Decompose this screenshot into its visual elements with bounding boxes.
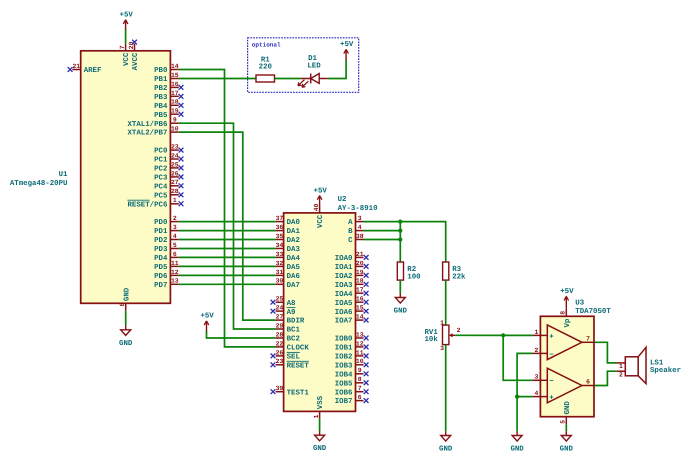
svg-text:BDIR: BDIR xyxy=(287,318,305,326)
svg-text:PC1: PC1 xyxy=(154,157,168,165)
svg-text:17: 17 xyxy=(356,287,364,294)
IC U1 ATmega48-20PU body xyxy=(81,51,171,303)
U2 pin 21 IOA0 xyxy=(335,251,369,263)
svg-text:31: 31 xyxy=(276,269,284,276)
svg-text:IOB7: IOB7 xyxy=(335,398,353,406)
wire U1 GND pin to ground xyxy=(125,311,127,326)
svg-text:14: 14 xyxy=(356,314,364,321)
svg-text:IOA4: IOA4 xyxy=(335,291,353,299)
svg-text:24: 24 xyxy=(276,305,284,312)
svg-text:PD2: PD2 xyxy=(154,237,167,245)
U3 pin 5 GND xyxy=(560,401,572,424)
svg-text:PD0: PD0 xyxy=(154,219,168,227)
U3 pin 1 xyxy=(532,329,547,336)
svg-text:−: − xyxy=(549,351,554,359)
svg-text:PB1: PB1 xyxy=(154,76,168,84)
U1 pin 14 PB0 xyxy=(154,63,179,75)
svg-text:36: 36 xyxy=(276,224,284,231)
svg-text:C: C xyxy=(348,237,353,245)
svg-text:CLOCK: CLOCK xyxy=(287,345,310,353)
svg-text:7: 7 xyxy=(119,45,126,49)
svg-text:VCC: VCC xyxy=(123,52,131,66)
power +5V above U3 xyxy=(560,288,574,308)
svg-text:2: 2 xyxy=(173,215,177,222)
svg-text:6: 6 xyxy=(586,379,590,386)
svg-text:DA2: DA2 xyxy=(287,237,300,245)
svg-text:29: 29 xyxy=(276,322,284,329)
wire pin4 net to ground xyxy=(516,397,518,432)
svg-text:26: 26 xyxy=(276,349,284,356)
U2 pin 33 DA4 xyxy=(276,251,301,263)
note box optional xyxy=(248,38,359,93)
svg-text:+5V: +5V xyxy=(340,41,354,49)
LED D1 xyxy=(298,55,328,87)
svg-text:PB2: PB2 xyxy=(154,85,167,93)
svg-text:GND: GND xyxy=(564,401,572,415)
U2 pin 10 IOB3 xyxy=(335,358,369,370)
svg-text:U3: U3 xyxy=(575,300,584,308)
svg-text:21: 21 xyxy=(72,63,80,70)
wire bus down to R2 xyxy=(399,222,401,262)
svg-text:IOA1: IOA1 xyxy=(335,264,353,272)
svg-text:15: 15 xyxy=(356,305,364,312)
U2 pin 18 IOA3 xyxy=(335,278,369,290)
U1 pin 27 PC4 xyxy=(154,179,183,191)
svg-text:DA0: DA0 xyxy=(287,219,301,227)
svg-text:IOB4: IOB4 xyxy=(335,371,353,379)
svg-text:B: B xyxy=(348,228,353,236)
power +5V above U2 xyxy=(314,187,328,204)
U2 pin 35 DA2 xyxy=(276,233,300,245)
U1 pin 11 PD5 xyxy=(154,260,179,272)
wire RV1 bottom to ground xyxy=(445,345,447,432)
svg-text:100: 100 xyxy=(407,273,421,281)
U2 pin 8 IOB5 xyxy=(335,376,369,388)
power +5V above U1 xyxy=(120,12,134,30)
svg-text:15: 15 xyxy=(171,72,179,79)
svg-text:22k: 22k xyxy=(452,272,466,281)
U1 pin 12 PD6 xyxy=(154,269,179,281)
U1 pin 13 PD7 xyxy=(154,278,179,290)
svg-text:5: 5 xyxy=(560,420,567,424)
ground symbol below U3 xyxy=(560,431,574,453)
U1 pin 25 PC2 xyxy=(154,161,183,173)
U2 pin 28 BC2 xyxy=(276,331,300,343)
svg-text:BC1: BC1 xyxy=(287,327,301,335)
svg-text:40: 40 xyxy=(313,203,320,211)
svg-text:AVCC: AVCC xyxy=(132,52,140,70)
svg-text:+5V: +5V xyxy=(200,313,214,321)
svg-text:19: 19 xyxy=(356,269,364,276)
U3 pin 4 xyxy=(532,390,547,397)
ground symbol below U1 xyxy=(119,326,133,348)
U2 pin 29 BC1 xyxy=(276,322,301,334)
svg-text:27: 27 xyxy=(171,179,179,186)
wire XTAL1/PB6 to BC1 xyxy=(179,123,276,329)
U2 pin 25 A8 xyxy=(271,296,296,308)
junction at pin4 net xyxy=(515,395,519,399)
svg-text:1: 1 xyxy=(619,363,623,370)
wire PD2 to DA2 xyxy=(179,239,276,241)
svg-text:30: 30 xyxy=(276,278,284,285)
power +5V in optional box xyxy=(340,41,354,60)
U2 pin 24 A9 xyxy=(271,305,296,317)
svg-text:2: 2 xyxy=(619,371,623,378)
U2 pin 17 IOA4 xyxy=(335,287,369,299)
svg-text:19: 19 xyxy=(171,108,179,115)
svg-text:RESET/PC6: RESET/PC6 xyxy=(127,200,167,209)
wire wiper net to U3 pin3 xyxy=(503,335,532,380)
svg-text:28: 28 xyxy=(171,188,179,195)
U2 pin 4 B xyxy=(348,224,363,236)
U2 pin 31 DA6 xyxy=(276,269,301,281)
svg-text:PD7: PD7 xyxy=(154,282,167,290)
svg-text:1: 1 xyxy=(534,329,538,336)
svg-text:IOB1: IOB1 xyxy=(335,345,353,353)
U2 pin 15 IOA6 xyxy=(335,305,369,317)
svg-text:7: 7 xyxy=(586,335,590,342)
svg-text:IOA7: IOA7 xyxy=(335,318,353,326)
U2 pin 39 TEST1 xyxy=(271,385,310,397)
svg-text:TDA7050T: TDA7050T xyxy=(575,308,611,316)
U3 pin 3 xyxy=(532,374,547,381)
svg-text:23: 23 xyxy=(276,358,284,365)
svg-text:Vp: Vp xyxy=(564,318,572,327)
svg-text:16: 16 xyxy=(356,296,364,303)
note text optional xyxy=(252,42,281,49)
junction at C bus xyxy=(398,237,402,241)
ground symbol below R2 xyxy=(394,293,408,315)
svg-text:Speaker: Speaker xyxy=(650,366,681,375)
U2 pin 7 IOB6 xyxy=(335,385,369,397)
svg-text:32: 32 xyxy=(276,260,284,267)
svg-text:LED: LED xyxy=(307,63,321,71)
wire U3 pin6 to LS1 pin2 xyxy=(595,371,617,385)
svg-text:39: 39 xyxy=(276,385,284,392)
svg-text:23: 23 xyxy=(171,144,179,151)
svg-text:ATmega48-20PU: ATmega48-20PU xyxy=(10,180,68,188)
wire PD6 to DA6 xyxy=(179,274,276,276)
U2 pin 1 VSS xyxy=(313,395,325,418)
svg-text:25: 25 xyxy=(171,161,179,168)
svg-text:GND: GND xyxy=(394,308,408,316)
svg-text:+: + xyxy=(549,333,554,341)
U1 pin 26 PC3 xyxy=(154,170,183,182)
svg-text:10: 10 xyxy=(356,358,364,365)
svg-text:12: 12 xyxy=(356,340,364,347)
U2 pin 30 DA7 xyxy=(276,278,300,290)
U2 value label AY-3-8910 xyxy=(338,205,378,213)
U1 pin 8 GND xyxy=(119,287,131,310)
svg-text:+: + xyxy=(549,395,554,403)
resistor R3 xyxy=(443,262,466,281)
svg-text:GND: GND xyxy=(313,445,327,453)
wire R3 to RV1 xyxy=(445,280,447,325)
svg-text:37: 37 xyxy=(276,215,284,222)
svg-text:GND: GND xyxy=(123,287,131,301)
svg-text:PD1: PD1 xyxy=(154,228,168,236)
wire U3 GND to ground xyxy=(565,424,567,431)
svg-text:7: 7 xyxy=(358,385,362,392)
svg-text:optional: optional xyxy=(252,42,281,49)
svg-text:PB0: PB0 xyxy=(154,67,168,75)
svg-text:−: − xyxy=(549,378,554,386)
svg-text:IOA2: IOA2 xyxy=(335,273,353,281)
svg-text:U1: U1 xyxy=(59,171,68,179)
svg-text:+5V: +5V xyxy=(120,12,134,20)
wire PD7 to DA7 xyxy=(179,283,276,285)
U1 pin 16 PB2 xyxy=(154,81,183,93)
U2 pin 38 C xyxy=(348,233,364,245)
resistor R2 xyxy=(397,262,421,281)
U1 pin 5 PD3 xyxy=(154,242,179,254)
wire PD3 to DA3 xyxy=(179,248,276,250)
svg-text:2: 2 xyxy=(534,347,538,354)
svg-text:16: 16 xyxy=(171,81,179,88)
U1 pin 10 XTAL2/PB7 xyxy=(127,126,178,138)
svg-text:IOB2: IOB2 xyxy=(335,354,353,362)
wire U2 A to R3 top xyxy=(364,222,446,262)
U2 pin 37 DA0 xyxy=(276,215,301,227)
svg-text:PD4: PD4 xyxy=(154,255,168,263)
svg-text:TEST1: TEST1 xyxy=(287,389,310,397)
svg-text:20: 20 xyxy=(356,260,364,267)
svg-text:IOB6: IOB6 xyxy=(335,389,353,397)
wire PD0 to DA0 xyxy=(179,221,276,223)
svg-text:IOA6: IOA6 xyxy=(335,309,353,317)
wire U2 C to bus xyxy=(364,239,401,241)
U2 pin 22 CLOCK xyxy=(276,340,310,352)
svg-text:10k: 10k xyxy=(424,335,438,344)
svg-text:PD3: PD3 xyxy=(154,246,168,254)
svg-text:PC0: PC0 xyxy=(154,148,168,156)
U2 pin 12 IOB1 xyxy=(335,340,369,352)
U2 pin 19 IOA2 xyxy=(335,269,369,281)
U2 pin 16 IOA5 xyxy=(335,296,369,308)
svg-text:21: 21 xyxy=(356,251,364,258)
svg-text:11: 11 xyxy=(171,260,179,267)
svg-text:D1: D1 xyxy=(308,55,317,63)
ground symbol below U2 xyxy=(313,431,327,453)
svg-text:220: 220 xyxy=(259,63,273,71)
svg-text:8: 8 xyxy=(119,303,126,307)
svg-text:8: 8 xyxy=(358,376,362,383)
svg-text:3: 3 xyxy=(440,345,444,352)
svg-text:1: 1 xyxy=(173,197,177,204)
svg-text:9: 9 xyxy=(173,117,177,124)
svg-text:A9: A9 xyxy=(287,309,296,317)
speaker LS1 xyxy=(617,347,681,383)
no-connect on AVCC xyxy=(132,40,137,45)
svg-text:1: 1 xyxy=(313,414,320,418)
svg-text:A: A xyxy=(348,219,353,227)
wire PD5 to DA5 xyxy=(179,265,276,267)
svg-text:VSS: VSS xyxy=(317,395,325,409)
U1 value label ATmega48-20PU xyxy=(10,180,68,188)
U2 pin 20 IOA1 xyxy=(335,260,369,272)
ground symbol on pin4 net xyxy=(510,431,524,453)
svg-text:GND: GND xyxy=(119,340,133,348)
U2 pin 3 A xyxy=(348,215,363,227)
U3 pin 8 Vp xyxy=(560,308,572,327)
wire XTAL2/PB7 to BDIR xyxy=(179,132,276,320)
wire PB1 to R1 xyxy=(179,78,256,80)
svg-text:33: 33 xyxy=(276,251,284,258)
svg-text:22: 22 xyxy=(276,340,284,347)
U1 pin 2 PD0 xyxy=(154,215,179,227)
svg-text:PC2: PC2 xyxy=(154,166,167,174)
svg-text:GND: GND xyxy=(439,446,453,454)
svg-text:PD5: PD5 xyxy=(154,264,168,272)
svg-text:IOB0: IOB0 xyxy=(335,336,353,344)
svg-text:12: 12 xyxy=(171,269,179,276)
svg-text:DA5: DA5 xyxy=(287,264,301,272)
svg-text:PB3: PB3 xyxy=(154,94,168,102)
wire BC2 to +5V xyxy=(207,331,276,338)
U3 pin 6 output xyxy=(582,379,595,386)
U3 pin 2 xyxy=(532,347,547,354)
wire VCC to +5V xyxy=(125,29,127,44)
svg-text:27: 27 xyxy=(276,314,284,321)
svg-text:3: 3 xyxy=(173,224,177,231)
U1 pin 28 PC5 xyxy=(154,188,183,200)
U2 pin 40 VCC xyxy=(313,203,325,228)
svg-text:IOA0: IOA0 xyxy=(335,255,353,263)
U1 pin 21 AREF xyxy=(68,63,102,75)
svg-text:4: 4 xyxy=(534,390,538,397)
svg-text:DA6: DA6 xyxy=(287,273,301,281)
svg-text:5: 5 xyxy=(173,242,177,249)
svg-text:28: 28 xyxy=(276,331,284,338)
svg-text:IOA5: IOA5 xyxy=(335,300,353,308)
svg-text:24: 24 xyxy=(171,152,179,159)
amplifier U3 TDA7050T body xyxy=(540,316,594,416)
svg-text:GND: GND xyxy=(560,446,574,454)
svg-text:DA1: DA1 xyxy=(287,228,301,236)
wire D1 to +5V xyxy=(328,59,346,78)
U2 pin 34 DA3 xyxy=(276,242,301,254)
svg-text:IOB3: IOB3 xyxy=(335,362,353,370)
U1 pin 23 PC0 xyxy=(154,144,183,156)
svg-text:XTAL1/PB6: XTAL1/PB6 xyxy=(127,120,167,129)
svg-text:4: 4 xyxy=(173,233,177,240)
U3 reference label xyxy=(575,300,584,308)
U1 pin 6 PD4 xyxy=(154,251,179,263)
wire PD1 to DA1 xyxy=(179,230,276,232)
svg-text:IOA3: IOA3 xyxy=(335,282,353,290)
svg-text:A8: A8 xyxy=(287,300,296,308)
wire R2 to ground xyxy=(399,280,401,293)
svg-text:GND: GND xyxy=(510,446,524,454)
U3 value label TDA7050T xyxy=(575,308,611,316)
U1 pin 15 PB1 xyxy=(154,72,179,84)
svg-text:RESET: RESET xyxy=(287,362,310,370)
op-amp A of U3 xyxy=(547,325,582,360)
svg-text:3: 3 xyxy=(358,215,362,222)
wire U2 VSS to ground xyxy=(319,419,321,431)
U2 pin 6 IOB7 xyxy=(335,394,369,406)
junction on wiper net xyxy=(501,333,505,337)
ground symbol below RV1 xyxy=(439,431,453,453)
svg-text:1: 1 xyxy=(440,319,444,326)
U2 pin 23 RESET xyxy=(271,358,310,370)
svg-text:26: 26 xyxy=(171,170,179,177)
wire PD4 to DA4 xyxy=(179,256,276,258)
svg-text:AY-3-8910: AY-3-8910 xyxy=(338,205,378,213)
svg-text:2: 2 xyxy=(457,327,461,334)
U2 reference label xyxy=(338,196,347,204)
svg-text:U2: U2 xyxy=(338,196,347,204)
wire U2 B to bus xyxy=(364,230,401,232)
U1 reference label xyxy=(59,171,68,179)
svg-text:25: 25 xyxy=(276,296,284,303)
svg-text:PC4: PC4 xyxy=(154,183,168,191)
resistor R1 xyxy=(256,57,275,82)
svg-text:14: 14 xyxy=(171,63,179,70)
U2 pin 11 IOB2 xyxy=(335,349,369,361)
U1 pin 19 PB5 xyxy=(154,108,183,120)
svg-text:17: 17 xyxy=(171,90,179,97)
U2 pin 26 SEL xyxy=(271,349,301,361)
svg-text:35: 35 xyxy=(276,233,284,240)
U1 pin 17 PB3 xyxy=(154,90,183,102)
U1 pin 4 PD2 xyxy=(154,233,179,245)
svg-text:SEL: SEL xyxy=(287,354,301,362)
svg-text:9: 9 xyxy=(358,367,362,374)
U2 pin 32 DA5 xyxy=(276,260,301,272)
U1 pin 9 XTAL1/PB6 xyxy=(127,117,178,129)
svg-text:VCC: VCC xyxy=(317,214,325,228)
svg-text:38: 38 xyxy=(356,233,364,240)
U2 pin 27 BDIR xyxy=(276,314,305,326)
IC U2 AY-3-8910 body xyxy=(284,213,356,412)
junction at A bus xyxy=(398,220,402,224)
svg-text:+5V: +5V xyxy=(314,187,328,195)
wire U3 pin7 to LS1 pin1 xyxy=(595,342,617,363)
svg-text:PC5: PC5 xyxy=(154,192,168,200)
U1 pin 7 VCC xyxy=(119,44,131,66)
U2 pin 36 DA1 xyxy=(276,224,301,236)
svg-text:+5V: +5V xyxy=(560,288,574,296)
svg-text:6: 6 xyxy=(358,394,362,401)
U3 pin 7 output xyxy=(582,335,595,342)
U2 pin 9 IOB4 xyxy=(335,367,369,379)
svg-text:18: 18 xyxy=(356,278,364,285)
svg-text:PD6: PD6 xyxy=(154,273,168,281)
U1 pin 3 PD1 xyxy=(154,224,179,236)
junction at B bus xyxy=(398,229,402,233)
svg-text:34: 34 xyxy=(276,242,284,249)
U2 pin 13 IOB0 xyxy=(335,331,369,343)
svg-text:8: 8 xyxy=(560,311,567,315)
svg-text:11: 11 xyxy=(356,349,364,356)
svg-text:PB4: PB4 xyxy=(154,103,168,111)
svg-text:DA7: DA7 xyxy=(287,282,300,290)
U1 pin 20 AVCC xyxy=(128,41,140,70)
potentiometer RV1 xyxy=(424,319,460,352)
svg-text:10: 10 xyxy=(171,126,179,133)
svg-text:BC2: BC2 xyxy=(287,336,300,344)
svg-text:PC3: PC3 xyxy=(154,175,168,183)
wire U3 pin2 to pin4 net xyxy=(517,353,532,396)
U2 pin 14 IOA7 xyxy=(335,314,369,326)
svg-text:DA4: DA4 xyxy=(287,255,301,263)
svg-text:13: 13 xyxy=(171,278,179,285)
wire R1 to D1 xyxy=(275,78,301,80)
svg-text:3: 3 xyxy=(534,374,538,381)
svg-text:XTAL2/PB7: XTAL2/PB7 xyxy=(127,129,167,138)
svg-text:4: 4 xyxy=(358,224,362,231)
